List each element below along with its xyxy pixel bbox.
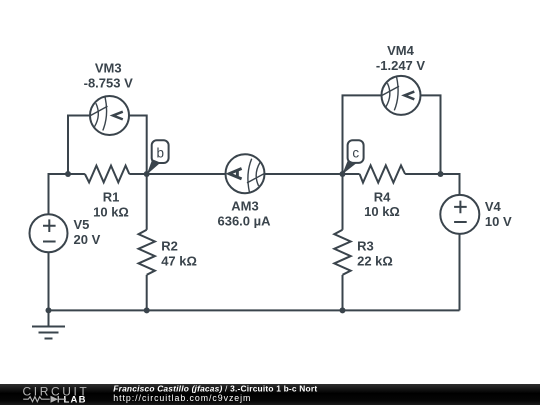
voltmeter VM3 bbox=[90, 96, 129, 135]
wire V5 top lead to R1 bbox=[49, 174, 85, 214]
wire node b down to R2 bbox=[146, 174, 148, 230]
wire R4 to V4 bbox=[405, 174, 459, 195]
node b bubble bbox=[147, 140, 169, 174]
svg-text:b: b bbox=[157, 146, 165, 161]
wire V4 bottom lead bbox=[459, 234, 461, 311]
svg-text:R4: R4 bbox=[374, 190, 391, 205]
wire bottom rail bbox=[49, 309, 460, 311]
svg-text:-1.247 V: -1.247 V bbox=[376, 58, 425, 73]
wire R2 bottom lead bbox=[146, 275, 148, 311]
wire VM3 right lead bbox=[129, 116, 147, 175]
junction VM4 right bbox=[438, 171, 444, 177]
svg-text:10 kΩ: 10 kΩ bbox=[93, 205, 129, 220]
svg-text:-8.753 V: -8.753 V bbox=[84, 75, 133, 90]
svg-text:R2: R2 bbox=[161, 238, 178, 253]
junction node c bbox=[340, 171, 346, 177]
svg-text:20 V: 20 V bbox=[74, 232, 101, 247]
wire VM4 left lead bbox=[343, 95, 382, 174]
voltage source V5 bbox=[30, 214, 68, 252]
resistor R4 bbox=[360, 165, 406, 182]
voltage source V4 bbox=[440, 195, 479, 234]
svg-text:R1: R1 bbox=[103, 190, 120, 205]
ground symbol bbox=[32, 327, 65, 339]
wire V5 bottom lead bbox=[48, 252, 50, 310]
svg-text:V4: V4 bbox=[485, 199, 502, 214]
svg-text:http://circuitlab.com/c9vzejm: http://circuitlab.com/c9vzejm bbox=[113, 393, 251, 403]
logo squiggle resistor-diode bbox=[23, 396, 66, 403]
logo diode triangle bbox=[51, 396, 59, 403]
svg-text:VM4: VM4 bbox=[387, 43, 415, 58]
wire node c to R4 bbox=[343, 173, 360, 175]
wire R3 bottom lead bbox=[342, 275, 344, 311]
svg-text:V5: V5 bbox=[74, 217, 90, 232]
wire node c down to R3 bbox=[342, 174, 344, 230]
svg-text:VM3: VM3 bbox=[95, 60, 122, 75]
voltmeter VM4 bbox=[382, 76, 421, 115]
svg-text:c: c bbox=[352, 145, 359, 160]
wire VM4 right lead bbox=[421, 95, 441, 174]
svg-text:47 kΩ: 47 kΩ bbox=[161, 253, 197, 268]
svg-text:LAB: LAB bbox=[64, 395, 87, 405]
junction VM3 left bbox=[65, 171, 71, 177]
junction ground bbox=[46, 307, 52, 313]
ground stem bbox=[48, 310, 50, 326]
svg-text:AM3: AM3 bbox=[231, 198, 258, 213]
resistor R2 bbox=[139, 230, 155, 275]
svg-text:10 kΩ: 10 kΩ bbox=[364, 204, 400, 219]
wire AM3 to node c bbox=[265, 173, 343, 175]
ammeter AM3 bbox=[226, 154, 265, 193]
svg-text:10 V: 10 V bbox=[485, 214, 512, 229]
svg-text:R3: R3 bbox=[357, 238, 374, 253]
svg-text:22 kΩ: 22 kΩ bbox=[357, 253, 393, 268]
resistor R1 bbox=[85, 166, 129, 183]
junction R3 bottom bbox=[340, 307, 346, 313]
junction R2 bottom bbox=[144, 307, 150, 313]
svg-text:636.0 µA: 636.0 µA bbox=[217, 213, 271, 228]
footer bar bbox=[0, 384, 540, 405]
resistor R3 bbox=[334, 230, 350, 275]
node c bubble bbox=[342, 140, 363, 174]
wire VM3 left lead bbox=[68, 116, 90, 175]
wire R1 to AM3 through node b bbox=[129, 173, 225, 175]
junction node b bbox=[144, 171, 150, 177]
